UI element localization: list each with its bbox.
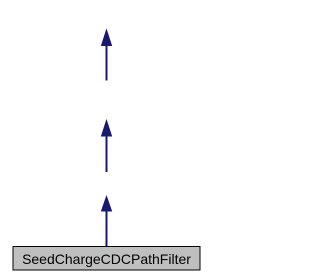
inheritance arrow edge 1 (top) xyxy=(102,30,112,81)
inheritance arrow edge 2 (middle) xyxy=(102,121,112,173)
inheritance arrow edge 3 (bottom) xyxy=(102,197,112,247)
svg-text:SeedChargeCDCPathFilter: SeedChargeCDCPathFilter xyxy=(22,251,191,267)
class node box SeedChargeCDCPathFilter xyxy=(13,247,200,271)
